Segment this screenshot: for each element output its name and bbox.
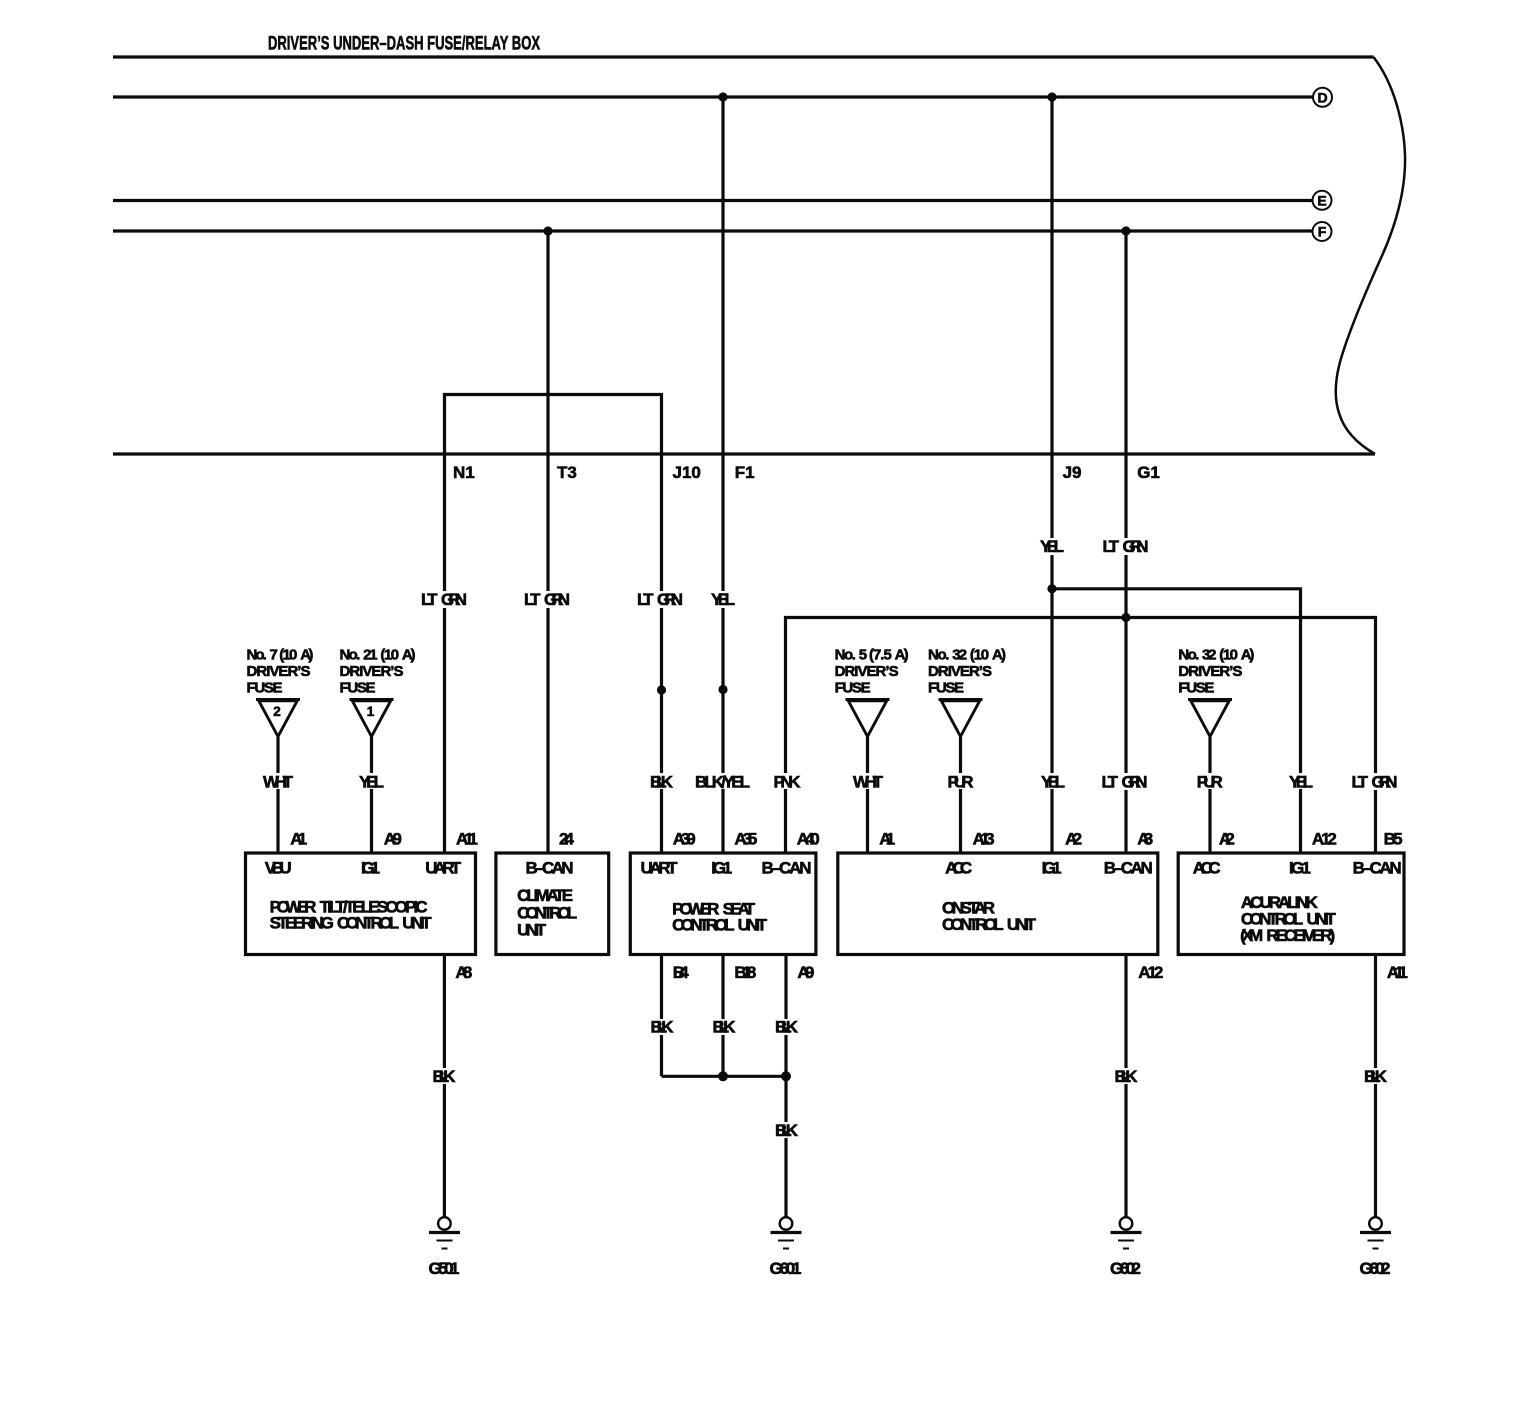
svg-text:DRIVER’S: DRIVER’S xyxy=(835,663,899,680)
svg-text:B–CAN: B–CAN xyxy=(526,859,574,878)
wire G1 xyxy=(1124,231,1127,853)
svg-text:J10: J10 xyxy=(673,463,701,482)
terminal F xyxy=(1313,222,1332,241)
svg-text:BLK/YEL: BLK/YEL xyxy=(695,773,750,792)
splice on F1 wire xyxy=(718,685,727,694)
svg-text:24: 24 xyxy=(559,830,575,849)
wire A12 to G602 xyxy=(1124,955,1127,1218)
wire branch B-CAN bus xyxy=(786,618,1376,854)
svg-text:CLIMATE: CLIMATE xyxy=(517,886,573,905)
label BLK on A11 wire xyxy=(1363,1067,1388,1086)
svg-text:BLK: BLK xyxy=(713,1018,737,1037)
svg-text:A): A) xyxy=(1241,647,1255,664)
svg-text:IG1: IG1 xyxy=(361,859,380,878)
svg-text:A11: A11 xyxy=(456,830,478,849)
svg-text:BLK: BLK xyxy=(775,1018,799,1037)
label PUR on fuse 32 wire xyxy=(947,773,974,792)
svg-text:B–CAN: B–CAN xyxy=(1353,859,1402,878)
label WHT on fuse 5 wire xyxy=(852,773,884,792)
label BLK on A8 wire xyxy=(432,1067,456,1086)
svg-text:LT: LT xyxy=(1103,537,1120,556)
label YEL on fuse 21 wire xyxy=(358,773,386,792)
svg-text:GRN: GRN xyxy=(544,590,570,609)
svg-text:UNIT: UNIT xyxy=(402,914,432,933)
svg-text:2: 2 xyxy=(273,704,281,719)
svg-text:CONTROL: CONTROL xyxy=(942,915,1004,934)
label YEL on J9 lower xyxy=(1040,773,1066,792)
svg-text:DRIVER’S: DRIVER’S xyxy=(1178,663,1242,680)
svg-text:G601: G601 xyxy=(770,1259,802,1278)
svg-text:No.: No. xyxy=(928,647,949,664)
svg-text:A13: A13 xyxy=(973,830,995,849)
svg-text:B–CAN: B–CAN xyxy=(762,859,812,878)
label BLK on G601 wire xyxy=(774,1121,799,1140)
svg-text:B4: B4 xyxy=(673,963,690,982)
svg-text:F1: F1 xyxy=(735,463,755,482)
wire A9 down to G601 xyxy=(784,955,787,1218)
svg-text:5: 5 xyxy=(859,647,867,664)
svg-text:GRN: GRN xyxy=(1122,773,1148,792)
svg-text:YEL: YEL xyxy=(359,773,384,792)
svg-text:B5: B5 xyxy=(1384,830,1403,849)
label BLK on B4 wire xyxy=(650,1018,674,1037)
svg-text:A9: A9 xyxy=(797,963,814,982)
svg-text:N1: N1 xyxy=(453,463,475,482)
wire B4 down xyxy=(660,955,663,1077)
label BLK on A12 wire xyxy=(1114,1067,1138,1086)
svg-text:G602: G602 xyxy=(1110,1259,1141,1278)
svg-text:(10: (10 xyxy=(970,647,989,664)
svg-text:UNIT: UNIT xyxy=(517,921,547,940)
label YEL on A12 branch xyxy=(1288,773,1314,792)
power tilt/telescopic steering control unit box xyxy=(246,853,476,955)
box internal pin names xyxy=(265,859,1402,878)
fuse No.7 driver's fuse (2) xyxy=(247,647,314,854)
svg-text:A12: A12 xyxy=(1312,830,1337,849)
svg-text:No.: No. xyxy=(340,647,361,664)
svg-text:WHT: WHT xyxy=(263,773,294,792)
bus wire E xyxy=(113,199,1313,202)
wire B18 down xyxy=(721,955,724,1077)
svg-text:PUR: PUR xyxy=(1197,773,1223,792)
label YEL on J9 xyxy=(1037,537,1067,556)
wire branch J9 to A12 xyxy=(1052,589,1301,853)
fuse No.5 driver's fuse xyxy=(835,647,909,854)
svg-text:CONTROL: CONTROL xyxy=(672,916,734,935)
label LT GRN on G1 lower xyxy=(1100,773,1150,792)
svg-text:7: 7 xyxy=(270,647,278,664)
svg-text:A9: A9 xyxy=(384,830,402,849)
svg-text:LT: LT xyxy=(524,590,541,609)
bus wire F xyxy=(113,229,1313,232)
svg-text:B18: B18 xyxy=(734,963,756,982)
pin labels above boxes xyxy=(290,830,1402,849)
svg-text:32: 32 xyxy=(952,647,967,664)
svg-text:D: D xyxy=(1317,89,1327,105)
svg-text:A40: A40 xyxy=(797,830,820,849)
svg-text:No.: No. xyxy=(1178,647,1199,664)
svg-text:A): A) xyxy=(895,647,909,664)
label BLK on B18 wire xyxy=(712,1018,736,1037)
svg-text:G602: G602 xyxy=(1360,1259,1391,1278)
svg-text:ACC: ACC xyxy=(1193,859,1221,878)
svg-text:LT: LT xyxy=(1352,773,1369,792)
svg-text:DRIVER’S: DRIVER’S xyxy=(928,663,992,680)
svg-text:RECEIVER): RECEIVER) xyxy=(1266,926,1335,945)
label PUR on fuse 32 acuralink wire xyxy=(1196,773,1223,792)
bus wire D xyxy=(113,95,1313,98)
wire colour labels row 1 xyxy=(1037,537,1152,556)
svg-text:IG1: IG1 xyxy=(711,859,732,878)
svg-text:G1: G1 xyxy=(1137,463,1160,482)
svg-text:UART: UART xyxy=(425,859,462,878)
wire colour labels row 3 xyxy=(262,773,1401,792)
ground G501 xyxy=(429,1217,461,1278)
svg-text:GRN: GRN xyxy=(1123,537,1149,556)
label WHT on fuse 7 wire xyxy=(262,773,294,792)
svg-text:BLK: BLK xyxy=(1115,1067,1139,1086)
svg-text:A8: A8 xyxy=(455,963,472,982)
svg-text:DRIVER’S: DRIVER’S xyxy=(340,663,404,680)
svg-text:YEL: YEL xyxy=(1041,773,1065,792)
fuse/relay box right torn edge xyxy=(1336,57,1405,454)
svg-text:FUSE: FUSE xyxy=(340,680,376,697)
svg-text:21: 21 xyxy=(363,647,377,664)
fuse No.32 driver's fuse (onstar) xyxy=(928,647,1006,854)
svg-text:G501: G501 xyxy=(429,1259,460,1278)
onstar control unit box xyxy=(838,853,1158,955)
wire F1 xyxy=(721,97,724,853)
svg-text:PNK: PNK xyxy=(774,773,802,792)
wire A8 to G501 xyxy=(443,955,446,1218)
svg-text:GRN: GRN xyxy=(1372,773,1398,792)
junction G1 branch xyxy=(1121,613,1130,622)
pin labels below boxes xyxy=(455,963,1408,982)
svg-text:CONTROL: CONTROL xyxy=(337,914,399,933)
svg-text:ACC: ACC xyxy=(945,859,972,878)
svg-text:FUSE: FUSE xyxy=(1178,680,1214,697)
svg-text:PUR: PUR xyxy=(948,773,974,792)
wire T3 xyxy=(546,231,549,853)
svg-text:STEERING: STEERING xyxy=(270,914,334,933)
svg-text:BLK: BLK xyxy=(775,1121,799,1140)
svg-text:UNIT: UNIT xyxy=(738,916,768,935)
svg-text:UART: UART xyxy=(641,859,679,878)
label PNK on A40 xyxy=(772,773,801,792)
unit boxes xyxy=(246,853,1405,955)
junction J9 branch xyxy=(1047,584,1056,593)
label LT GRN on N1 xyxy=(421,590,468,609)
wire ground tie bar xyxy=(662,1075,787,1078)
fuse No.21 driver's fuse (1) xyxy=(340,647,416,854)
svg-text:A1: A1 xyxy=(879,830,895,849)
svg-text:IG1: IG1 xyxy=(1042,859,1062,878)
svg-text:LT: LT xyxy=(637,590,654,609)
junction A9 ground tie xyxy=(781,1071,791,1081)
climate control unit box xyxy=(496,853,609,955)
terminal E xyxy=(1313,191,1332,210)
svg-text:F: F xyxy=(1318,224,1327,240)
svg-text:A2: A2 xyxy=(1065,830,1082,849)
below-box wiring xyxy=(444,955,1375,1218)
ground G602 acuralink xyxy=(1360,1217,1392,1278)
svg-text:LT: LT xyxy=(1102,773,1119,792)
svg-text:A39: A39 xyxy=(673,830,696,849)
svg-text:A35: A35 xyxy=(734,830,757,849)
svg-text:E: E xyxy=(1317,192,1326,208)
svg-text:A): A) xyxy=(402,647,416,664)
svg-text:J9: J9 xyxy=(1063,463,1082,482)
svg-text:GRN: GRN xyxy=(657,590,683,609)
svg-text:T3: T3 xyxy=(557,463,577,482)
svg-text:GRN: GRN xyxy=(441,590,467,609)
acuralink control unit box xyxy=(1178,853,1404,955)
fuse/relay box bottom edge xyxy=(113,452,1375,455)
splice on J10 wire xyxy=(657,685,666,694)
svg-text:A3: A3 xyxy=(1137,830,1153,849)
svg-text:32: 32 xyxy=(1202,647,1216,664)
ground G602 onstar xyxy=(1110,1217,1142,1278)
power seat control unit box xyxy=(630,853,816,955)
svg-text:UNIT: UNIT xyxy=(1007,915,1037,934)
wire N1 loop to J10 xyxy=(445,395,662,854)
wire A11 to G602 xyxy=(1374,955,1377,1218)
svg-text:A12: A12 xyxy=(1138,963,1163,982)
label LT GRN on T3 xyxy=(524,590,571,609)
svg-text:FUSE: FUSE xyxy=(835,680,871,697)
junction B18 ground tie xyxy=(718,1071,728,1081)
svg-text:(10: (10 xyxy=(1219,647,1238,664)
label BLK on A39 xyxy=(650,773,674,792)
svg-text:No.: No. xyxy=(835,647,856,664)
svg-text:A1: A1 xyxy=(290,830,307,849)
svg-text:B–CAN: B–CAN xyxy=(1104,859,1153,878)
svg-text:A): A) xyxy=(992,647,1006,664)
svg-text:(XM: (XM xyxy=(1240,926,1263,945)
svg-text:LT: LT xyxy=(421,590,438,609)
svg-text:No.: No. xyxy=(247,647,267,664)
wire colour labels row 2 xyxy=(421,590,738,609)
junction on F at T3 xyxy=(543,226,552,235)
junction on D at F1 xyxy=(718,92,727,101)
svg-text:BLK: BLK xyxy=(650,773,674,792)
svg-text:(7.5: (7.5 xyxy=(869,647,892,664)
fuse No.32 driver's fuse (acuralink) xyxy=(1178,647,1254,854)
ground G601 xyxy=(770,1217,802,1278)
label YEL on F1 xyxy=(708,590,738,609)
svg-text:FUSE: FUSE xyxy=(928,680,964,697)
svg-text:DRIVER’S: DRIVER’S xyxy=(247,663,311,680)
ground wire colour labels xyxy=(432,1018,1388,1141)
svg-text:A11: A11 xyxy=(1387,963,1408,982)
svg-text:YEL: YEL xyxy=(711,590,735,609)
svg-text:YEL: YEL xyxy=(1289,773,1313,792)
wire J9 xyxy=(1050,97,1053,853)
label LT GRN on G1 xyxy=(1100,537,1152,556)
unit names xyxy=(270,886,1337,945)
svg-text:WHT: WHT xyxy=(853,773,884,792)
svg-text:YEL: YEL xyxy=(1040,537,1064,556)
svg-text:DRIVER’S UNDER–DASH FUSE/RELAY: DRIVER’S UNDER–DASH FUSE/RELAY BOX xyxy=(268,34,540,55)
svg-text:(10: (10 xyxy=(380,647,399,664)
svg-text:BLK: BLK xyxy=(433,1067,457,1086)
svg-text:A): A) xyxy=(300,647,313,664)
label BLK on A9 wire xyxy=(774,1018,799,1037)
svg-text:(10: (10 xyxy=(279,647,297,664)
fuse/relay box top edge xyxy=(113,55,1374,58)
svg-text:1: 1 xyxy=(367,704,375,719)
svg-text:VBU: VBU xyxy=(265,859,292,878)
junction on F at G1 xyxy=(1121,226,1130,235)
svg-text:FUSE: FUSE xyxy=(247,680,283,697)
label LT GRN on B5 branch xyxy=(1351,773,1401,792)
terminal D xyxy=(1313,88,1332,107)
svg-text:BLK: BLK xyxy=(651,1018,675,1037)
label LT GRN on J10 xyxy=(637,590,684,609)
svg-text:A2: A2 xyxy=(1219,830,1235,849)
svg-text:BLK: BLK xyxy=(1364,1067,1388,1086)
label BLK/YEL on A35 xyxy=(694,773,752,792)
svg-text:IG1: IG1 xyxy=(1289,859,1311,878)
junction on D at J9 xyxy=(1047,92,1056,101)
